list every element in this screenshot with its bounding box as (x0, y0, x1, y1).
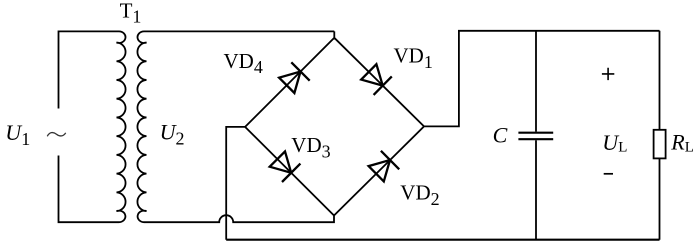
svg-text:C: C (493, 123, 508, 148)
